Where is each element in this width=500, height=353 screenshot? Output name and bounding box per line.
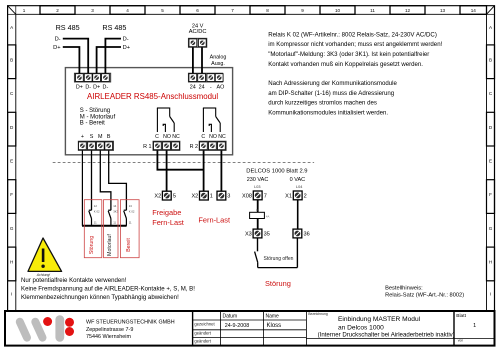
top border column numbers 1-14 <box>16 6 487 15</box>
svg-text:9: 9 <box>301 8 304 13</box>
svg-text:3: 3 <box>91 8 94 13</box>
wire X3:35 to switch <box>257 238 259 251</box>
svg-text:RS 485: RS 485 <box>102 23 126 32</box>
title block vertical separators <box>193 311 454 346</box>
wire B down with jog <box>109 150 127 210</box>
svg-text:B - Bereit: B - Bereit <box>80 121 105 127</box>
svg-text:B: B <box>489 57 492 62</box>
warning triangle symbol <box>28 238 62 271</box>
auxiliary contact Stoerung contact K02 12-11 <box>89 204 100 226</box>
wire bottom link 35-36 <box>258 267 298 269</box>
svg-text:Nach Adressierung der Kommunik: Nach Adressierung der Kommunikationsmodu… <box>268 80 397 87</box>
terminal X2:5 <box>162 191 171 200</box>
note text block 1 <box>268 31 442 68</box>
svg-text:Bereit: Bereit <box>126 238 132 252</box>
svg-text:11: 11 <box>370 8 375 13</box>
svg-text:X2: X2 <box>154 194 161 200</box>
company name block <box>86 320 175 341</box>
svg-text:Zeppelinstrasse 7-9: Zeppelinstrasse 7-9 <box>86 327 133 333</box>
svg-text:DELCOS 1000 Blatt 2.9: DELCOS 1000 Blatt 2.9 <box>246 168 307 174</box>
wire X08:7 to fuse F4 <box>257 200 259 213</box>
terminal 36 <box>293 229 302 238</box>
wire R1 NO to X2:5 <box>166 150 168 191</box>
note text block 2 <box>268 80 397 116</box>
svg-text:Störung: Störung <box>265 279 291 288</box>
svg-text:24: 24 <box>190 84 196 90</box>
svg-text:11: 11 <box>129 220 132 224</box>
svg-text:Störung offen: Störung offen <box>264 256 294 262</box>
svg-text:36: 36 <box>304 232 310 238</box>
switch contact Stoerung offen (open) <box>255 252 258 268</box>
svg-text:NO: NO <box>209 134 217 140</box>
svg-text:H: H <box>10 260 13 265</box>
svg-text:Relais-Satz (WF-Art.-Nr.: 8002: Relais-Satz (WF-Art.-Nr.: 8002) <box>385 293 464 299</box>
svg-text:D-: D- <box>103 84 109 90</box>
svg-text:Relais K 02 (WF-Artikelnr.: 80: Relais K 02 (WF-Artikelnr.: 8002 Relais-… <box>268 31 437 38</box>
svg-text:M: M <box>98 134 103 140</box>
signal box Motorlauf <box>104 200 119 258</box>
svg-text:Bestellhinweis:: Bestellhinweis: <box>385 286 423 292</box>
dashed panel separation line <box>53 162 314 164</box>
wire S down to contact <box>91 150 93 210</box>
svg-text:Fern-Last: Fern-Last <box>198 216 230 225</box>
svg-text:E: E <box>489 158 492 163</box>
svg-text:K 02: K 02 <box>94 210 100 214</box>
svg-text:Nur potentialfreie Kontakte ve: Nur potentialfreie Kontakte verwenden! <box>21 277 127 284</box>
relay contact symbol K relay R1 <box>157 108 174 133</box>
svg-text:Datum: Datum <box>223 314 238 320</box>
auxiliary contact Motorlauf contact 3K3 14-11 <box>108 204 118 226</box>
svg-text:S: S <box>90 134 94 140</box>
drawing frame inner border <box>16 14 487 311</box>
svg-text:Motorlauf: Motorlauf <box>107 234 113 256</box>
svg-text:13: 13 <box>129 204 133 208</box>
svg-text:D-: D- <box>85 84 91 90</box>
wire D- right to terminal <box>105 39 121 74</box>
fuse F4 <box>250 208 270 218</box>
svg-text:1: 1 <box>23 8 26 13</box>
terminal X1:2 <box>293 191 302 200</box>
svg-text:2: 2 <box>304 193 307 199</box>
signal box Stoerung <box>84 200 102 258</box>
svg-text:Kontakt vorhanden muß ein Kopp: Kontakt vorhanden muß ein Koppelrelais g… <box>268 61 423 68</box>
svg-text:X1: X1 <box>285 193 292 199</box>
svg-text:L04: L04 <box>296 185 302 189</box>
svg-text:S - Störung: S - Störung <box>80 108 110 114</box>
wire R2 NC to X2:3 <box>220 150 222 191</box>
svg-text:D-: D- <box>55 37 61 43</box>
terminal block X D+ D- D+ D- <box>74 73 110 82</box>
signal box Bereit <box>120 200 139 258</box>
svg-text:NO: NO <box>163 134 171 140</box>
svg-text:am DIP-Schalter (1-16) muss d: am DIP-Schalter (1-16) muss die Adressie… <box>268 90 394 97</box>
frame corner bevel top-left <box>8 6 16 15</box>
svg-text:von: von <box>458 339 464 343</box>
frame corner bevel top-right <box>487 6 495 15</box>
svg-text:G: G <box>10 226 14 231</box>
relay R1 terminal block C NO NC <box>153 141 180 150</box>
svg-text:durch kurzzeitiges stromlos ma: durch kurzzeitiges stromlos machen des <box>268 100 377 107</box>
svg-text:75446 Wiernsheim: 75446 Wiernsheim <box>86 334 131 340</box>
svg-text:5: 5 <box>161 8 164 13</box>
svg-text:1: 1 <box>210 194 213 200</box>
svg-text:12: 12 <box>405 8 411 13</box>
svg-text:Fern-Last: Fern-Last <box>152 218 184 227</box>
svg-text:NC: NC <box>218 134 226 140</box>
svg-text:B: B <box>107 134 111 140</box>
svg-text:+: + <box>81 134 84 140</box>
wire X1:2 down to 36 <box>297 200 299 229</box>
svg-text:AO: AO <box>217 84 225 90</box>
terminal X2:3 <box>217 191 226 200</box>
svg-text:1: 1 <box>473 323 476 329</box>
svg-text:14: 14 <box>113 204 117 208</box>
svg-text:3: 3 <box>227 194 230 200</box>
terminal X08:7 <box>253 191 262 200</box>
svg-text:K 02: K 02 <box>129 210 135 214</box>
svg-text:C: C <box>155 134 159 140</box>
svg-text:NC: NC <box>172 134 180 140</box>
wire 24V supply N to module 24 <box>201 47 203 73</box>
svg-text:Einbindung MASTER Modul: Einbindung MASTER Modul <box>338 316 421 323</box>
wire M down with jog <box>100 150 111 210</box>
svg-text:230 VAC: 230 VAC <box>247 177 269 183</box>
svg-text:Kloss: Kloss <box>267 323 282 329</box>
svg-text:7: 7 <box>231 8 234 13</box>
svg-text:I: I <box>11 292 12 297</box>
svg-text:Kommunikationsmodules initiali: Kommunikationsmodules initialisiert werd… <box>268 109 388 116</box>
warning note lines <box>21 277 195 301</box>
svg-text:Name: Name <box>266 314 280 320</box>
svg-text:X08: X08 <box>242 193 252 199</box>
svg-text:2: 2 <box>56 8 59 13</box>
terminal X3:35 <box>253 229 262 238</box>
svg-text:im Kompressor nicht vorhanden;: im Kompressor nicht vorhanden; muss erst… <box>268 41 442 48</box>
terminal block 24 24 - AO <box>188 73 223 82</box>
terminal X2:1 <box>200 191 209 200</box>
svg-text:5: 5 <box>173 194 176 200</box>
relay R2 terminal block C NO NC <box>199 141 226 150</box>
svg-text:R 1: R 1 <box>143 144 151 150</box>
svg-text:"Motorlauf"-Meldung: 3K3 (oder: "Motorlauf"-Meldung: 3K3 (oder 3K1). Ist… <box>268 51 429 58</box>
svg-text:Freigabe: Freigabe <box>152 208 181 217</box>
svg-text:6: 6 <box>196 8 199 13</box>
svg-text:D+: D+ <box>93 84 100 90</box>
svg-text:H: H <box>489 260 492 265</box>
svg-text:AIRLEADER RS485-Anschlussmodul: AIRLEADER RS485-Anschlussmodul <box>87 92 218 101</box>
WF logo <box>20 317 74 338</box>
svg-text:geändert: geändert <box>194 331 211 336</box>
wire + down <box>81 150 83 225</box>
wire D- left to terminal <box>63 39 88 74</box>
svg-text:(Interner Druckschalter bei Ai: (Interner Druckschalter bei Airleaderbet… <box>318 332 455 339</box>
svg-text:14: 14 <box>471 8 477 13</box>
terminal block 24V AC/DC supply <box>188 38 206 47</box>
svg-text:7: 7 <box>264 193 267 199</box>
auxiliary contact Bereit contact K02 13-11 <box>124 204 135 226</box>
wire common bus (thick) <box>82 225 127 227</box>
svg-text:X3: X3 <box>245 232 252 238</box>
svg-text:D+: D+ <box>53 45 61 51</box>
svg-text:C: C <box>201 134 205 140</box>
drawing description <box>318 316 455 339</box>
wire R1 C to R2 C link <box>157 150 203 169</box>
wire 24V supply L to module 24 <box>192 47 194 73</box>
wire fuse to X3:35 <box>257 219 259 230</box>
svg-text:Bezeichnung: Bezeichnung <box>308 312 328 316</box>
terminal block + S M B <box>78 141 113 150</box>
svg-text:AC/DC: AC/DC <box>189 29 207 35</box>
svg-text:D+: D+ <box>76 84 83 90</box>
svg-text:35: 35 <box>264 232 270 238</box>
svg-text:4: 4 <box>126 8 129 13</box>
svg-text:4A: 4A <box>266 215 270 219</box>
AIRLEADER RS485 module U1 outline <box>65 68 232 155</box>
svg-text:Analog: Analog <box>210 55 227 61</box>
svg-text:11: 11 <box>113 220 116 224</box>
svg-text:13: 13 <box>440 8 446 13</box>
title block border <box>5 311 495 346</box>
svg-text:11: 11 <box>94 220 97 224</box>
svg-text:X2: X2 <box>191 194 198 200</box>
svg-text:24-9-2008: 24-9-2008 <box>225 323 250 329</box>
svg-text:geändert: geändert <box>194 338 211 343</box>
svg-text:12: 12 <box>94 204 98 208</box>
svg-text:F: F <box>10 192 13 197</box>
title block row separators <box>193 320 495 339</box>
svg-text:Ausg.: Ausg. <box>211 61 225 67</box>
svg-text:Blatt: Blatt <box>456 313 466 319</box>
svg-text:RS 485: RS 485 <box>56 23 80 32</box>
right border row letters A-I <box>487 14 495 296</box>
wire D+ right to terminal <box>97 47 121 73</box>
svg-text:Keine Fremdspannung auf die AI: Keine Fremdspannung auf die AIRLEADER-Ko… <box>21 286 195 293</box>
svg-text:0 VAC: 0 VAC <box>290 177 306 183</box>
svg-text:M - Motorlauf: M - Motorlauf <box>80 114 116 120</box>
wire 36 down <box>296 238 298 268</box>
svg-text:Störung: Störung <box>89 236 95 254</box>
sheet number block <box>456 313 476 343</box>
svg-text:F: F <box>489 192 492 197</box>
relay contact symbol K relay R2 <box>203 108 220 133</box>
svg-text:24: 24 <box>199 84 205 90</box>
svg-text:8: 8 <box>266 8 269 13</box>
svg-text:G: G <box>489 226 493 231</box>
svg-text:R 2: R 2 <box>190 144 198 150</box>
svg-text:B: B <box>10 57 13 62</box>
left border row letters A-I <box>8 14 16 296</box>
svg-text:10: 10 <box>335 8 341 13</box>
svg-text:D-: D- <box>123 37 129 43</box>
svg-text:D+: D+ <box>123 45 131 51</box>
svg-text:I: I <box>490 292 491 297</box>
svg-text:an Delcos 1000: an Delcos 1000 <box>338 324 384 331</box>
svg-text:Klemmenbezeichnungen können Ty: Klemmenbezeichnungen können Typabhängig … <box>21 294 179 301</box>
svg-text:gezeichnet: gezeichnet <box>194 322 215 327</box>
svg-text:-: - <box>210 84 212 90</box>
svg-text:WF STEUERUNGSTECHNIK GMBH: WF STEUERUNGSTECHNIK GMBH <box>86 320 175 326</box>
wire D+ left to terminal <box>63 47 80 73</box>
svg-text:E: E <box>10 158 13 163</box>
svg-text:L03: L03 <box>254 185 260 189</box>
wire R2 C down to X2:1 <box>203 150 205 191</box>
title block table texts <box>194 312 328 343</box>
